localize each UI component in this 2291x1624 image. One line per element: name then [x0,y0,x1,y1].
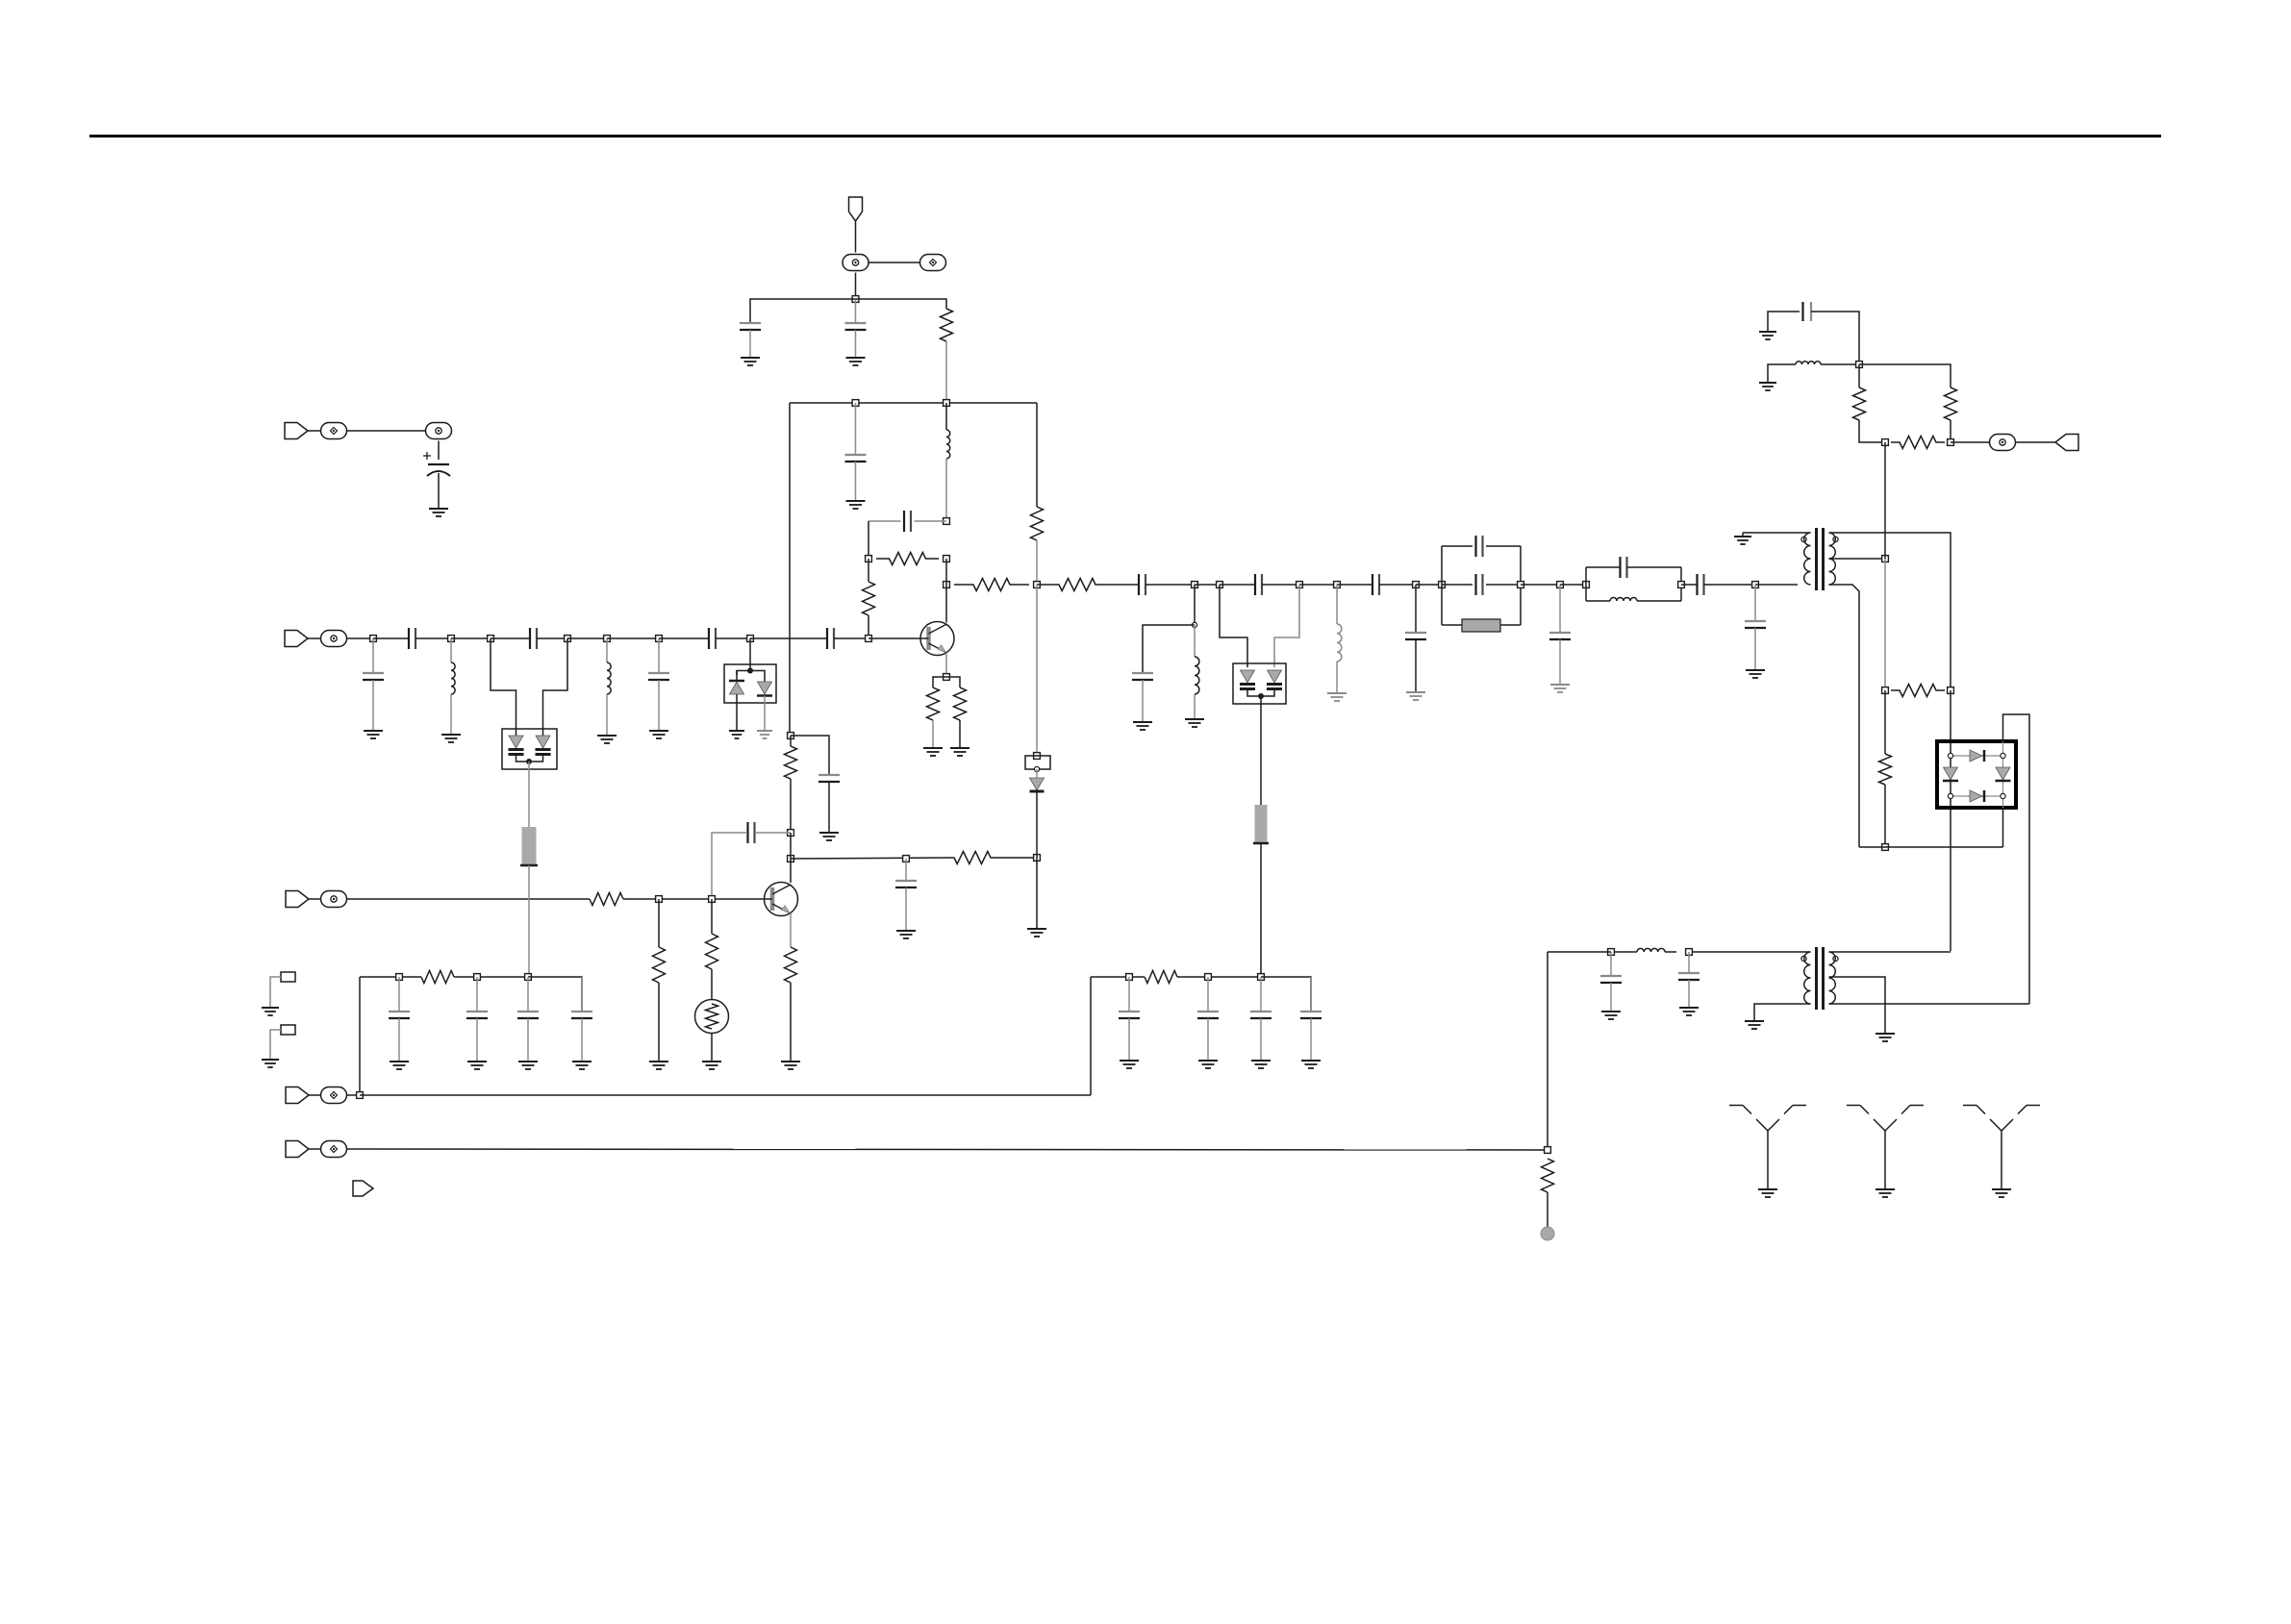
LC block right [1680,567,1682,601]
wire [1611,951,1637,953]
node [1948,439,1954,446]
bridge internal left diode [1944,767,1958,780]
pin header stub 2 [281,1025,295,1035]
wire [1547,1192,1548,1227]
wire [270,1030,281,1060]
node [656,636,663,642]
ground [729,730,744,732]
capacitor C13 [1372,574,1373,595]
wire [915,520,947,522]
wire [1207,977,1209,1012]
ground [950,747,969,749]
resonator X3 [522,827,537,865]
wire [1859,420,1885,442]
wire [932,720,934,748]
resistor R4 [863,582,875,615]
ground [1876,1033,1895,1035]
capacitor C4 [903,511,905,532]
capacitor C36 [1300,1011,1322,1012]
ground [1198,1060,1218,1062]
wire [855,462,857,501]
ground [649,730,668,732]
wire [1627,566,1682,568]
wire [1247,689,1274,697]
wire [711,899,713,934]
wire [1768,364,1796,383]
wire [1090,977,1092,1095]
diode D1b [758,682,772,694]
header rule [89,135,2161,137]
wire [855,221,857,253]
resistor R16 [590,893,623,906]
ground [1185,718,1204,720]
node [866,556,872,562]
wire [454,976,528,978]
wire [1704,584,1756,586]
wire [516,755,543,762]
ground [741,357,760,359]
diode D1a [736,671,738,682]
wire [959,720,961,748]
varactor D4a [516,729,517,736]
wire [1036,769,1038,778]
wire secondary bottom [1829,1003,2030,1005]
capacitor C23 [1678,972,1699,974]
block1 row wire [360,976,421,978]
node [1192,622,1196,627]
wire [856,299,947,309]
ground [1734,536,1751,537]
capacitor C2 [845,322,867,324]
wire [1128,1018,1130,1061]
wire [933,677,946,687]
node [788,856,794,862]
capacitor C35 [1250,1011,1271,1012]
wire [1742,533,1744,537]
node [488,636,494,642]
resistor R8 [1058,579,1096,591]
wire [1547,952,1548,1150]
wire [868,615,869,638]
wire tap [1829,558,1886,560]
wire [309,1094,321,1096]
resistor R17 [653,947,666,983]
resistor R22 [1542,1159,1554,1192]
wire [1037,584,1058,586]
wire [606,638,608,662]
connector J1 pad B [920,255,946,271]
diode D3 [1030,778,1045,790]
wire [527,1018,529,1062]
resistor R11 [1891,437,1945,449]
node [1686,949,1693,956]
wire [2003,714,2030,1004]
resistor R19 [785,947,797,983]
wire [869,262,921,263]
wire emitter [790,913,792,947]
resistor R3 [876,553,939,565]
resistor R21 [1145,971,1177,984]
wire [834,637,869,639]
wire [1610,983,1612,1012]
wire [855,330,857,358]
capacitor C16 [1474,536,1476,557]
wire [1689,951,1811,953]
wire collector feed [789,403,791,736]
node [866,636,872,642]
wire [750,637,827,639]
wire [1415,585,1417,633]
node [1334,582,1341,588]
wire [711,1034,713,1062]
wire [1811,312,1859,364]
wire [855,299,857,323]
node [788,733,794,739]
node [709,896,716,903]
ground [819,832,839,834]
wire [1754,1004,1811,1021]
wire [581,977,583,1012]
connector pad [426,423,452,439]
node [1557,582,1564,588]
wire [1260,977,1262,1012]
wire [528,762,530,827]
wire [1142,680,1144,722]
wire [1884,559,1886,690]
wire [1096,584,1139,586]
wire [756,832,791,834]
wire [869,520,901,522]
node [1217,582,1223,588]
wire [1586,600,1610,602]
wire [1768,312,1800,332]
node [1752,582,1759,588]
wire [716,637,750,639]
ground [1406,691,1425,693]
wire [658,680,660,731]
ground [1746,669,1765,671]
node [1413,582,1420,588]
wire [1036,540,1038,585]
wire [1128,977,1130,1012]
wire [1036,403,1038,507]
wire varactor leg [491,638,516,729]
capacitor C33 [1119,1011,1140,1012]
transistor Q1 [920,622,954,656]
wire [659,637,709,639]
wire [1486,545,1521,547]
diode module D2 box [1233,663,1286,704]
capacitor C1 [740,322,761,324]
capacitor C8 [648,672,669,674]
transistor Q2 [765,883,798,916]
wire [750,299,856,323]
wire secondary top [1829,951,1951,953]
wire [1821,363,1859,365]
capacitor C34 [1197,1011,1219,1012]
ground [1679,1007,1699,1009]
wire [623,898,764,900]
wire [790,983,792,1062]
wire [790,833,792,859]
wire [491,637,530,639]
node [747,636,754,642]
wire [868,559,869,582]
node [944,556,950,562]
ground [1301,1060,1321,1062]
wire [869,637,920,639]
ground [262,1059,279,1061]
wire secondary top [1829,533,1951,690]
node [1258,693,1264,699]
node [656,896,663,903]
LC block left [1585,567,1587,601]
bridge internal bottom [1951,795,2003,797]
thermistor RT1 [695,1000,729,1034]
varactor D2b [1268,670,1282,683]
wire [905,887,907,931]
node [370,636,377,642]
inductor L5 [1337,624,1342,662]
ground [1759,331,1776,333]
resistor R18 [706,934,718,969]
wire [945,622,947,624]
capacitor C28 electrolytic [428,463,449,465]
wire [270,977,281,1008]
row wire [360,1094,1091,1096]
resonator X2 [1255,805,1268,843]
node [1882,687,1889,694]
wire [309,898,321,900]
wire [606,694,608,736]
connector pad [321,1087,347,1104]
tag T4 [286,891,309,908]
filter left leg [1441,546,1443,625]
wire [737,668,750,675]
wire [398,977,400,1012]
resistor R1 [941,309,953,341]
wire [1442,545,1473,547]
wire [1688,980,1690,1008]
wire [711,969,713,1000]
node [1608,949,1615,956]
wire [1379,584,1416,586]
wire [309,1148,321,1150]
ground [1251,1060,1271,1062]
row wire [346,1149,1548,1150]
node [1034,753,1041,760]
ground [846,500,866,502]
capacitor C31 [517,1011,539,1012]
wire [1950,690,1951,951]
wire [790,779,792,833]
node [1192,582,1198,588]
wire [1177,976,1261,978]
capacitor C20 [1696,574,1698,595]
capacitor C6 [408,628,410,649]
wire [1884,785,1886,847]
wire [1260,1018,1262,1061]
wire [2015,441,2056,443]
capacitor C5 [363,672,384,674]
varactor D4b [542,729,544,736]
node [1034,582,1041,588]
wire [346,898,590,900]
wire secondary bottom [1829,585,1860,847]
ground [1120,1060,1139,1062]
ground [846,357,866,359]
wire [359,977,361,1095]
ground [1759,382,1776,384]
wire [308,637,321,639]
ground [649,1061,668,1062]
wire [658,983,660,1062]
node [944,674,950,681]
wire [1859,846,2003,848]
tag T7 [353,1181,373,1196]
ground [1550,684,1570,686]
antenna Y1 [1729,1105,1743,1107]
node [525,974,532,981]
capacitor C26 [746,822,748,843]
inductor L3 [607,662,611,694]
wire [1036,858,1038,929]
wire [946,677,960,687]
wire [438,473,440,509]
wire [1743,532,1811,534]
capacitor C18 [1549,632,1571,634]
inductor L1 [946,430,950,459]
antenna Y2 [1847,1105,1860,1107]
wire [1559,585,1561,633]
inductor L4 [1195,657,1199,694]
wire [945,585,947,622]
ground [1133,721,1152,723]
node [1518,582,1524,588]
wire [790,736,792,746]
transformer T1 [1815,528,1818,590]
capacitor C27 [895,880,917,882]
wire [1220,584,1255,586]
wire [308,430,321,432]
row 892 wire [791,858,950,859]
resistor R2 [1031,507,1044,540]
wire [1310,977,1312,1012]
wire [1884,690,1886,754]
node [788,830,794,837]
capacitor C12 [1254,574,1256,595]
wire [1688,952,1690,973]
wire [346,1094,360,1096]
wire [1194,585,1196,625]
connector pad [321,1141,347,1158]
capacitor C9 [708,628,710,649]
resistor R6 [954,687,967,720]
bridge internal top [1951,755,2003,757]
wire [945,459,947,521]
bridge rectifier U1 box [1937,741,2016,808]
node [903,856,910,862]
wire [1586,566,1621,568]
capacitor C17 [1474,574,1476,595]
resistor R15 [950,852,994,864]
capacitor C29 [389,1011,410,1012]
wire [1207,1018,1209,1061]
capacitor C21 [1745,620,1766,622]
node [1882,439,1889,446]
resistor R20 [421,971,454,984]
wire varactor leg [543,638,568,729]
wire [1754,585,1756,621]
node [944,400,950,407]
wire [750,671,765,683]
node [852,400,859,407]
node [944,582,950,588]
capacitor C24 [1600,975,1622,977]
wire [1681,584,1698,586]
wire [1416,584,1442,586]
tag BATT [285,423,308,439]
wire [1754,628,1756,670]
connector pad [321,631,347,647]
node [944,518,950,525]
resistor R10 [1945,387,1957,420]
supply tag P1 [849,197,863,221]
wire [1559,639,1561,685]
node [1545,1147,1551,1154]
inductor L6 [1610,598,1637,601]
wire [1858,364,1860,387]
wire [905,859,907,881]
tag T5 [286,1087,309,1104]
ground [597,735,617,737]
wire [1262,584,1299,586]
input tag RF IN [285,631,308,647]
wire [1260,843,1262,977]
node [565,636,571,642]
wire [791,736,829,775]
wire [790,859,792,883]
node [1034,855,1041,862]
capacitor C25 [818,774,840,776]
ground [467,1061,487,1062]
node [1882,556,1889,562]
wire [1884,442,1886,559]
wire [945,559,947,585]
output tag [2055,435,2078,451]
transformer T2 [1815,947,1818,1010]
wire [1194,694,1196,719]
wire [607,637,659,639]
wire [1755,584,1798,586]
resonator X1 [1442,624,1462,626]
wire [1415,639,1417,692]
capacitor C10 [826,628,828,649]
ground [1027,928,1046,930]
capacitor C11 [1138,574,1140,595]
resistor R14 [785,746,797,779]
wire [749,330,751,358]
wire [749,638,751,668]
wire [528,977,582,1012]
node [1034,766,1039,771]
wire [868,521,869,559]
wire [451,637,491,639]
block2 row wire [1091,976,1145,978]
wire [855,403,857,455]
wire [372,680,374,731]
wire [415,637,451,639]
